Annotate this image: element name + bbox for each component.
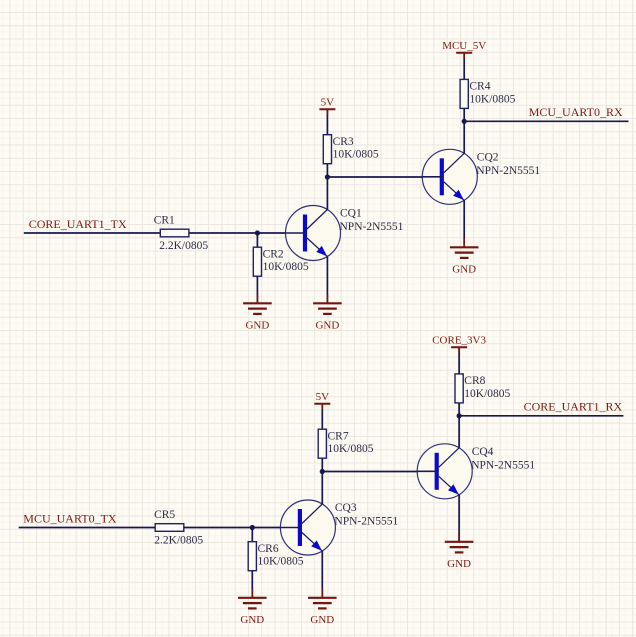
transistor CQ2 (422, 149, 477, 204)
svg-text:CQ4: CQ4 (472, 446, 494, 458)
wire CR2 top stem (256, 233, 258, 247)
wire CQ1 collector to CQ2 base (327, 176, 441, 178)
svg-text:10K/0805: 10K/0805 (469, 93, 515, 105)
wire MCU_UART0_TX segment (19, 527, 156, 529)
svg-text:2.2K/0805: 2.2K/0805 (159, 240, 208, 252)
power port 5V (a) (319, 109, 335, 115)
wire CR4 bottom stem (463, 108, 465, 121)
svg-text:CR8: CR8 (464, 375, 485, 387)
wire CR1 to CQ1 base (189, 232, 305, 234)
ground GND under CR2 (243, 294, 272, 314)
power port 5V (b) (314, 404, 330, 410)
svg-text:CR7: CR7 (328, 431, 349, 443)
resistor CR1 (160, 229, 189, 237)
svg-text:CR5: CR5 (154, 509, 175, 521)
junction node CR7/CQ3 collector (320, 469, 325, 474)
svg-text:5V: 5V (321, 97, 335, 109)
junction node CORE_UART1_RX (457, 413, 462, 418)
wire 5V to CR3 (326, 109, 328, 134)
wire CQ1 collector (326, 177, 328, 209)
svg-text:NPN-2N5551: NPN-2N5551 (334, 516, 398, 528)
svg-text:MCU_UART0_RX: MCU_UART0_RX (529, 105, 623, 119)
junction node MCU_UART0_RX (462, 119, 467, 124)
resistor CR8 (455, 374, 463, 403)
svg-text:5V: 5V (316, 391, 330, 403)
svg-text:10K/0805: 10K/0805 (258, 556, 304, 568)
svg-text:GND: GND (240, 614, 264, 626)
svg-text:GND: GND (310, 614, 334, 626)
svg-text:NPN-2N5551: NPN-2N5551 (340, 221, 404, 233)
wire CQ4 emitter to ground (458, 495, 460, 542)
wire CQ3 emitter to ground (321, 551, 323, 598)
wire 5V to CR7 (321, 404, 323, 429)
resistor CR2 (253, 247, 261, 276)
ground GND under CQ1 (313, 294, 342, 314)
ground GND under CQ4 (445, 533, 474, 553)
wire CR6 to ground (251, 571, 253, 598)
wire CORE_UART1_RX segment (459, 415, 623, 417)
svg-text:CR6: CR6 (258, 543, 279, 555)
wire CQ1 emitter to ground (326, 257, 328, 304)
wire MCU_5V to CR4 (463, 53, 465, 80)
resistor CR5 (155, 524, 184, 532)
svg-text:GND: GND (447, 558, 471, 570)
power port MCU_5V (456, 53, 472, 59)
wire CR7 bottom stem (321, 458, 323, 471)
svg-text:GND: GND (245, 320, 269, 332)
ground GND under CQ2 (450, 238, 479, 258)
resistor CR4 (460, 79, 468, 108)
junction node MCU_UART0_TX/CR6 (250, 525, 255, 530)
svg-text:CQ1: CQ1 (340, 208, 362, 220)
svg-text:CORE_UART1_RX: CORE_UART1_RX (524, 400, 623, 414)
wire CR8 bottom stem (458, 403, 460, 416)
resistor CR7 (318, 429, 326, 458)
junction node CORE_UART1_TX/CR2 (255, 230, 260, 235)
svg-text:CR4: CR4 (469, 81, 490, 93)
svg-text:MCU_5V: MCU_5V (442, 40, 486, 52)
wire MCU_UART0_RX segment (464, 120, 628, 122)
wire CQ2 collector (463, 121, 465, 153)
svg-text:CORE_3V3: CORE_3V3 (432, 335, 486, 347)
resistor CR6 (248, 542, 256, 571)
wire CQ2 emitter to ground (463, 200, 465, 247)
svg-text:10K/0805: 10K/0805 (464, 388, 510, 400)
wire CQ4 collector (458, 416, 460, 448)
wire CORE_UART1_TX segment (24, 232, 161, 234)
wire CR2 to ground (256, 276, 258, 303)
ground GND under CQ3 (308, 589, 337, 609)
resistor CR3 (323, 135, 331, 164)
wire CORE_3V3 to CR8 (458, 347, 460, 374)
power port CORE_3V3 (451, 347, 467, 353)
svg-text:2.2K/0805: 2.2K/0805 (154, 534, 203, 546)
svg-text:GND: GND (452, 264, 476, 276)
svg-text:CR3: CR3 (333, 136, 354, 148)
svg-text:NPN-2N5551: NPN-2N5551 (471, 459, 535, 471)
svg-text:CQ2: CQ2 (477, 152, 499, 164)
svg-text:CR1: CR1 (154, 215, 175, 227)
svg-text:CQ3: CQ3 (335, 502, 357, 514)
transistor CQ1 (286, 206, 341, 261)
svg-text:10K/0805: 10K/0805 (328, 443, 374, 455)
transistor CQ4 (417, 444, 472, 499)
wire CQ3 collector (321, 472, 323, 504)
wire CR6 top stem (251, 528, 253, 542)
svg-text:MCU_UART0_TX: MCU_UART0_TX (23, 512, 117, 526)
svg-text:NPN-2N5551: NPN-2N5551 (476, 165, 540, 177)
svg-text:GND: GND (315, 320, 339, 332)
svg-text:10K/0805: 10K/0805 (333, 149, 379, 161)
transistor CQ3 (280, 500, 335, 555)
wire CQ3 collector to CQ4 base (322, 471, 436, 473)
svg-text:10K/0805: 10K/0805 (263, 261, 309, 273)
svg-text:CR2: CR2 (263, 249, 284, 261)
wire CR3 bottom stem (326, 164, 328, 177)
ground GND under CR6 (238, 589, 267, 609)
wire CR5 to CQ3 base (184, 527, 300, 529)
junction node CR3/CQ1 collector (325, 174, 330, 179)
svg-text:CORE_UART1_TX: CORE_UART1_TX (29, 217, 127, 231)
